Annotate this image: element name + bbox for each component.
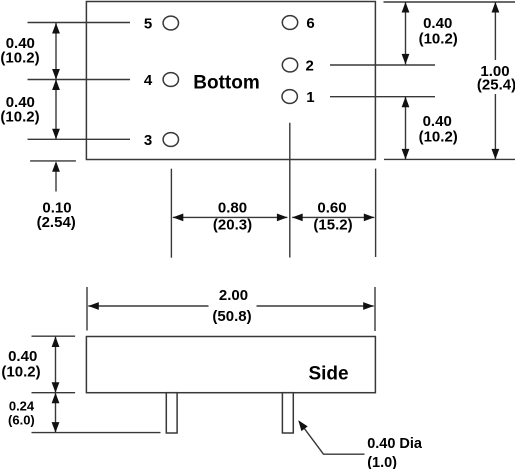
svg-text:0.24: 0.24 (9, 399, 35, 414)
svg-text:(20.3): (20.3) (213, 216, 252, 233)
svg-text:(10.2): (10.2) (0, 109, 39, 126)
svg-text:(10.2): (10.2) (1, 363, 40, 380)
svg-text:0.40: 0.40 (8, 348, 37, 365)
svg-text:(1.0): (1.0) (367, 455, 397, 469)
svg-text:(6.0): (6.0) (8, 413, 35, 428)
svg-text:0.60: 0.60 (317, 200, 346, 217)
svg-text:2: 2 (306, 58, 314, 75)
svg-text:(50.8): (50.8) (212, 308, 251, 325)
svg-text:(2.54): (2.54) (37, 214, 76, 231)
svg-text:0.80: 0.80 (218, 200, 247, 217)
svg-text:1: 1 (306, 89, 314, 106)
svg-text:0.40 Dia: 0.40 Dia (367, 436, 423, 452)
svg-text:(15.2): (15.2) (313, 216, 352, 233)
svg-text:6: 6 (306, 15, 314, 32)
svg-text:2.00: 2.00 (219, 287, 248, 304)
svg-text:(10.2): (10.2) (0, 50, 39, 67)
svg-text:(10.2): (10.2) (419, 31, 458, 48)
svg-text:4: 4 (144, 72, 153, 89)
svg-text:(25.4): (25.4) (477, 77, 515, 94)
svg-text:5: 5 (144, 16, 152, 33)
svg-text:Side: Side (308, 364, 348, 385)
svg-text:(10.2): (10.2) (419, 128, 458, 145)
svg-text:3: 3 (144, 132, 152, 149)
svg-text:Bottom: Bottom (193, 73, 259, 94)
